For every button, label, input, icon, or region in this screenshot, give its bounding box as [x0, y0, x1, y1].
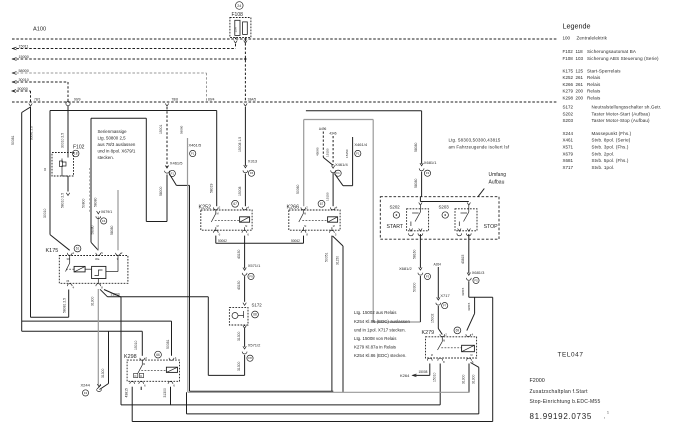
- svg-text:15010: 15010: [134, 340, 138, 350]
- svg-text:F8: F8: [248, 356, 252, 360]
- svg-text:04: 04: [43, 167, 47, 171]
- svg-text:S203: S203: [439, 204, 450, 209]
- svg-text:X717: X717: [440, 293, 450, 298]
- svg-text:K264: K264: [400, 373, 410, 378]
- svg-text:X717: X717: [563, 165, 574, 170]
- svg-text:30010: 30010: [19, 78, 29, 82]
- svg-text:F102: F102: [563, 49, 574, 54]
- svg-text:58000: 58000: [19, 69, 29, 73]
- svg-text:Sicherungsautomat BA: Sicherungsautomat BA: [587, 49, 636, 54]
- svg-text:43815: 43815: [125, 388, 129, 398]
- svg-text:200: 200: [576, 96, 584, 101]
- svg-text:F108: F108: [563, 56, 574, 61]
- svg-text:Legende: Legende: [563, 22, 591, 31]
- svg-text:15002: 15002: [431, 313, 435, 323]
- svg-text:18A/5: 18A/5: [248, 98, 257, 102]
- svg-text:X461/5: X461/5: [189, 142, 202, 147]
- svg-text:15150: 15150: [326, 192, 330, 201]
- svg-text:F5: F5: [474, 278, 478, 282]
- svg-text:Ltg. 58303,50300,43815: Ltg. 58303,50300,43815: [449, 138, 501, 143]
- svg-text:aus 78/3 auslassen: aus 78/3 auslassen: [98, 142, 136, 147]
- svg-text:K298: K298: [124, 354, 137, 360]
- svg-text:und in 1pol. X717 stecken.: und in 1pol. X717 stecken.: [354, 327, 406, 332]
- svg-text:K298: K298: [563, 96, 574, 101]
- svg-text:F2: F2: [84, 391, 88, 395]
- svg-text:Stvb. 5pol. (Fhs.): Stvb. 5pol. (Fhs.): [592, 158, 629, 163]
- svg-text:78/8: 78/8: [172, 98, 179, 102]
- svg-text:50081: 50081: [11, 135, 15, 145]
- svg-text:F3: F3: [426, 274, 430, 278]
- svg-text:43150: 43150: [237, 280, 241, 290]
- svg-text:Relais: Relais: [587, 82, 601, 87]
- svg-text:F1: F1: [171, 171, 175, 175]
- svg-text:K279 Kl.87a in Relais: K279 Kl.87a in Relais: [354, 345, 397, 350]
- svg-text:K254 Kl.86 (EDC) auslassen: K254 Kl.86 (EDC) auslassen: [354, 319, 410, 324]
- svg-text:K252: K252: [563, 75, 574, 80]
- svg-text:X571/1: X571/1: [248, 263, 261, 268]
- svg-text:M: M: [431, 354, 433, 357]
- svg-text:Stvb. 8pol. (Serie): Stvb. 8pol. (Serie): [592, 138, 631, 143]
- svg-text:81.99192.0735: 81.99192.0735: [530, 412, 593, 421]
- svg-text:M: M: [471, 354, 473, 357]
- svg-text:Relais: Relais: [587, 89, 601, 94]
- svg-text:X571: X571: [563, 145, 574, 150]
- svg-text:1: 1: [607, 411, 609, 415]
- svg-text:X244: X244: [81, 383, 91, 388]
- svg-text:Neutralstellungsschalter sh.Ge: Neutralstellungsschalter sh.Getr.: [592, 105, 662, 110]
- svg-text:50081 2.5: 50081 2.5: [29, 126, 33, 140]
- svg-text:Sicherung ABS Steuerung (Serie: Sicherung ABS Steuerung (Serie): [587, 56, 659, 61]
- svg-text:Serienmassige: Serienmassige: [98, 129, 128, 134]
- svg-text:15010: 15010: [433, 372, 437, 382]
- svg-text:X571/2: X571/2: [248, 342, 261, 347]
- svg-text:M: M: [245, 225, 247, 228]
- svg-text:15008: 15008: [419, 370, 428, 374]
- svg-text:Taster Motor-Stop (Aufbau): Taster Motor-Stop (Aufbau): [592, 118, 651, 123]
- svg-text:30010 2.5: 30010 2.5: [61, 133, 65, 148]
- svg-text:58160: 58160: [413, 249, 417, 259]
- svg-text:S172: S172: [252, 302, 263, 307]
- svg-text:,: ,: [604, 414, 605, 420]
- svg-text:F102: F102: [73, 145, 85, 151]
- svg-text:stecken.: stecken.: [98, 155, 114, 160]
- svg-text:Relais: Relais: [587, 96, 601, 101]
- svg-text:50800: 50800: [82, 198, 86, 208]
- svg-text:S203: S203: [563, 118, 574, 123]
- svg-text:X461/5: X461/5: [170, 161, 183, 166]
- svg-text:261: 261: [576, 82, 584, 87]
- svg-text:58080: 58080: [90, 225, 94, 234]
- svg-text:Ltg. 15008 von Relais: Ltg. 15008 von Relais: [354, 336, 397, 341]
- svg-text:K279: K279: [563, 89, 574, 94]
- svg-text:31150: 31150: [336, 256, 340, 265]
- svg-text:15000: 15000: [19, 55, 29, 59]
- svg-text:58080: 58080: [110, 225, 114, 235]
- svg-text:Ltg. 50800 2,5: Ltg. 50800 2,5: [98, 136, 127, 141]
- svg-text:Zentralelektrik: Zentralelektrik: [577, 36, 608, 41]
- svg-text:S172: S172: [563, 105, 574, 110]
- svg-text:START: START: [387, 224, 404, 230]
- svg-text:50081: 50081: [166, 339, 170, 349]
- svg-text:Aufbau: Aufbau: [489, 180, 505, 186]
- svg-text:80/4: 80/4: [208, 98, 215, 102]
- svg-text:69: 69: [456, 329, 460, 333]
- svg-text:58010 2.5: 58010 2.5: [61, 193, 65, 208]
- svg-text:15011: 15011: [19, 44, 29, 48]
- svg-text:61: 61: [76, 247, 80, 251]
- svg-text:Stvb. 2pol.: Stvb. 2pol.: [592, 151, 615, 156]
- svg-text:Stvb. 3pol. (Fhs.): Stvb. 3pol. (Fhs.): [592, 145, 629, 150]
- svg-text:X681/2: X681/2: [399, 266, 412, 271]
- svg-text:58081 2.5: 58081 2.5: [63, 298, 67, 313]
- svg-text:58080: 58080: [180, 125, 184, 134]
- svg-text:31300: 31300: [471, 374, 475, 384]
- svg-text:58019: 58019: [209, 183, 213, 193]
- svg-text:103: 103: [576, 56, 584, 61]
- svg-text:31300: 31300: [163, 388, 167, 398]
- svg-text:M: M: [304, 213, 306, 216]
- svg-text:68: 68: [253, 313, 257, 317]
- svg-text:43815: 43815: [467, 302, 471, 311]
- svg-text:78/1: 78/1: [34, 98, 41, 102]
- svg-text:K175: K175: [563, 68, 574, 73]
- svg-text:261: 261: [576, 75, 584, 80]
- svg-text:K254 Kl.86 (EDC) stecken.: K254 Kl.86 (EDC) stecken.: [354, 353, 406, 358]
- svg-text:X681/3: X681/3: [472, 270, 485, 275]
- svg-text:58080: 58080: [93, 197, 97, 207]
- svg-text:18: 18: [74, 152, 78, 156]
- svg-text:TEL047: TEL047: [558, 352, 584, 359]
- svg-text:30a: 30a: [95, 257, 100, 261]
- svg-text:Stvb. 1pol.: Stvb. 1pol.: [592, 165, 615, 170]
- svg-text:K252: K252: [199, 204, 212, 210]
- svg-text:Massepunkt (Fhs.): Massepunkt (Fhs.): [592, 131, 632, 136]
- svg-text:A264: A264: [434, 263, 442, 267]
- svg-text:15150: 15150: [345, 149, 349, 158]
- svg-text:50060: 50060: [296, 184, 300, 194]
- svg-text:Start-Sperrelais: Start-Sperrelais: [587, 68, 621, 73]
- svg-text:Relais: Relais: [587, 75, 601, 80]
- svg-text:4346: 4346: [329, 132, 336, 136]
- svg-text:X244: X244: [563, 131, 574, 136]
- svg-text:F4: F4: [102, 219, 106, 223]
- svg-text:31300: 31300: [461, 374, 465, 384]
- svg-text:X679: X679: [563, 151, 574, 156]
- svg-text:90/9: 90/9: [74, 98, 81, 102]
- svg-text:31300: 31300: [237, 361, 241, 371]
- svg-text:F1: F1: [336, 171, 340, 175]
- svg-text:X681/1: X681/1: [424, 160, 437, 165]
- svg-text:67: 67: [320, 202, 324, 206]
- svg-text:31300: 31300: [90, 296, 94, 306]
- svg-text:K266: K266: [287, 204, 300, 210]
- svg-text:67: 67: [233, 202, 237, 206]
- svg-text:Stop-Einrichtung b.EDC-M55: Stop-Einrichtung b.EDC-M55: [530, 399, 601, 405]
- svg-text:45080: 45080: [316, 147, 320, 156]
- svg-text:X461/4: X461/4: [335, 162, 348, 167]
- svg-text:M: M: [217, 213, 219, 216]
- svg-text:M: M: [443, 339, 445, 342]
- svg-text:58080: 58080: [414, 178, 418, 188]
- svg-text:K279: K279: [422, 330, 435, 336]
- svg-text:50051: 50051: [325, 252, 329, 262]
- svg-text:K266: K266: [563, 82, 574, 87]
- svg-text:X461: X461: [563, 138, 574, 143]
- svg-text:K175: K175: [46, 248, 59, 254]
- svg-text:31300: 31300: [101, 368, 105, 378]
- svg-text:118: 118: [576, 49, 584, 54]
- svg-text:15008: 15008: [238, 186, 242, 196]
- svg-text:M: M: [217, 225, 219, 228]
- svg-text:Taster Motor-Start (Aufbau): Taster Motor-Start (Aufbau): [592, 111, 651, 116]
- svg-text:58000: 58000: [159, 186, 163, 196]
- svg-text:Umfang: Umfang: [489, 172, 507, 178]
- svg-text:F1: F1: [356, 152, 360, 156]
- svg-text:43815: 43815: [461, 287, 465, 296]
- svg-text:24: 24: [237, 4, 241, 8]
- svg-text:15A: 15A: [233, 27, 237, 32]
- svg-text:M: M: [333, 225, 335, 228]
- svg-text:43150: 43150: [237, 249, 241, 259]
- svg-text:31300: 31300: [237, 331, 241, 341]
- svg-text:X681: X681: [563, 158, 574, 163]
- svg-text:15008 1.5: 15008 1.5: [238, 137, 242, 152]
- svg-text:50300: 50300: [413, 282, 417, 292]
- svg-text:15150: 15150: [326, 148, 330, 157]
- svg-text:STOP: STOP: [484, 224, 499, 230]
- svg-text:200: 200: [576, 89, 584, 94]
- svg-text:X313: X313: [248, 159, 258, 164]
- svg-text:S202: S202: [563, 111, 574, 116]
- svg-text:100: 100: [563, 36, 571, 41]
- svg-text:30010: 30010: [43, 208, 47, 218]
- svg-text:66: 66: [156, 353, 160, 357]
- svg-text:F6: F6: [250, 171, 254, 175]
- svg-text:50062: 50062: [291, 239, 300, 243]
- svg-text:50062: 50062: [218, 239, 227, 243]
- svg-text:58080: 58080: [414, 142, 418, 152]
- svg-text:M: M: [143, 363, 145, 366]
- svg-text:und in 8pol. X679/1: und in 8pol. X679/1: [98, 149, 136, 154]
- svg-text:F2000: F2000: [530, 378, 545, 384]
- svg-text:F7: F7: [443, 304, 447, 308]
- svg-text:X461/4: X461/4: [354, 142, 367, 147]
- svg-text:F3: F3: [426, 171, 430, 175]
- svg-text:F9: F9: [249, 274, 253, 278]
- svg-text:F1: F1: [191, 152, 195, 156]
- svg-text:am Fahrzeugende isoliert lsf: am Fahrzeugende isoliert lsf: [449, 145, 510, 150]
- svg-text:Ltg. 15002 aus Relais: Ltg. 15002 aus Relais: [354, 310, 397, 315]
- svg-text:43815: 43815: [461, 254, 465, 264]
- svg-text:15001: 15001: [159, 124, 163, 134]
- svg-text:A496: A496: [319, 127, 327, 131]
- svg-text:125: 125: [576, 68, 584, 73]
- svg-text:A100: A100: [33, 27, 46, 33]
- svg-text:X679/1: X679/1: [101, 210, 112, 214]
- svg-text:M: M: [304, 225, 306, 228]
- svg-text:50000: 50000: [18, 87, 28, 91]
- svg-text:S202: S202: [390, 204, 401, 209]
- svg-text:Zusatzschaltplan f.Start: Zusatzschaltplan f.Start: [530, 389, 589, 395]
